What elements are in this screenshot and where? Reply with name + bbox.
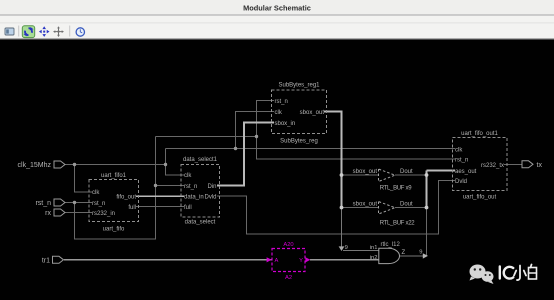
- svg-text:clk: clk: [275, 110, 283, 116]
- svg-text:in2: in2: [370, 255, 378, 261]
- svg-text:uart_fifo_out1: uart_fifo_out1: [461, 131, 498, 137]
- svg-text:RTL_BUF x22: RTL_BUF x22: [380, 221, 416, 227]
- svg-text:Z: Z: [402, 250, 406, 256]
- svg-text:sbox_in: sbox_in: [275, 121, 296, 127]
- svg-text:Dout: Dout: [400, 201, 413, 207]
- svg-text:RTL_BUF x9: RTL_BUF x9: [380, 186, 413, 192]
- svg-text:A2: A2: [285, 275, 292, 281]
- svg-text:clk: clk: [184, 173, 192, 179]
- svg-text:fifo_out: fifo_out: [116, 195, 136, 201]
- svg-text:sbox_out: sbox_out: [353, 201, 378, 207]
- svg-text:rtlc_l12: rtlc_l12: [381, 242, 401, 248]
- svg-text:Dout: Dout: [400, 169, 413, 175]
- svg-text:sbox_out: sbox_out: [353, 169, 378, 175]
- svg-text:rst_n: rst_n: [35, 200, 51, 207]
- svg-text:tx: tx: [537, 162, 543, 169]
- svg-text:clk_15Mhz: clk_15Mhz: [18, 162, 52, 169]
- svg-text:data_in: data_in: [184, 195, 204, 201]
- svg-text:aes_out: aes_out: [455, 169, 477, 175]
- svg-text:SubBytes_reg1: SubBytes_reg1: [278, 83, 320, 89]
- svg-text:clk: clk: [455, 147, 463, 153]
- svg-text:rs232_tx: rs232_tx: [481, 163, 504, 169]
- svg-text:in1: in1: [370, 245, 378, 251]
- svg-text:Din: Din: [207, 184, 216, 190]
- svg-text:clk: clk: [92, 190, 100, 196]
- svg-text:SubBytes_reg: SubBytes_reg: [280, 139, 318, 145]
- svg-text:Modular Schematic: Modular Schematic: [243, 4, 311, 13]
- svg-text:sbox_out: sbox_out: [300, 110, 325, 116]
- svg-text:uart_fifo1: uart_fifo1: [101, 173, 127, 179]
- svg-text:full: full: [184, 205, 192, 211]
- svg-text:rst_n: rst_n: [455, 157, 468, 163]
- svg-text:rx: rx: [45, 210, 51, 217]
- svg-text:Y: Y: [299, 258, 303, 264]
- svg-text:rst_n: rst_n: [275, 99, 288, 105]
- svg-text:A20: A20: [283, 242, 293, 248]
- svg-text:uart_fifo: uart_fifo: [103, 227, 125, 233]
- svg-text:9: 9: [419, 250, 422, 256]
- svg-text:rst_n: rst_n: [92, 201, 105, 207]
- svg-text:9: 9: [345, 245, 348, 251]
- svg-text:full: full: [128, 205, 136, 211]
- svg-text:rs232_in: rs232_in: [92, 211, 115, 217]
- svg-text:data_select1: data_select1: [183, 157, 218, 163]
- svg-text:uart_fifo_out: uart_fifo_out: [463, 195, 497, 201]
- svg-text:tr1: tr1: [42, 257, 50, 264]
- svg-text:A: A: [275, 258, 279, 264]
- svg-text:rst_n: rst_n: [184, 184, 197, 190]
- svg-text:Dvld: Dvld: [204, 195, 216, 201]
- svg-text:data_select: data_select: [185, 220, 216, 226]
- svg-text:Dvld: Dvld: [455, 179, 467, 185]
